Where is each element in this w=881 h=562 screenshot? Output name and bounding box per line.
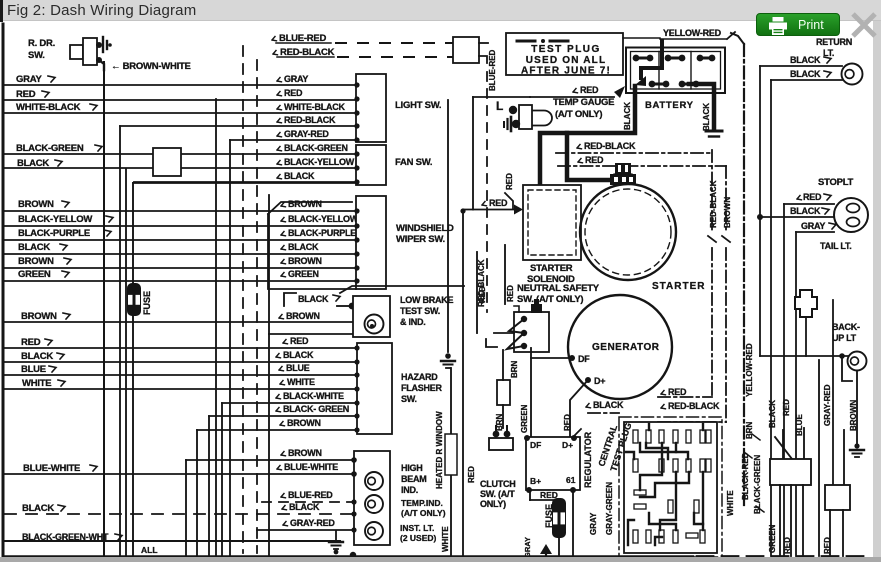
svg-text:GREEN: GREEN: [520, 404, 529, 433]
svg-text:LOW BRAKE: LOW BRAKE: [400, 295, 453, 305]
svg-text:RED-BLACK: RED-BLACK: [709, 180, 718, 228]
svg-text:(A/T ONLY): (A/T ONLY): [401, 508, 446, 518]
label BLACK: [586, 404, 591, 408]
wire bus BROWN-WHITE vertical: [103, 62, 105, 556]
central test plug block: [624, 422, 717, 553]
relay box: [153, 148, 181, 176]
svg-text:BLACK: BLACK: [283, 350, 314, 360]
svg-text:RED: RED: [16, 89, 36, 100]
svg-text:BROWN: BROWN: [723, 197, 732, 228]
svg-text:STARTER: STARTER: [530, 263, 573, 274]
hazard flasher box: [357, 343, 392, 434]
right gray strip: [873, 21, 881, 562]
return lamp: [842, 64, 863, 85]
pin: [706, 430, 711, 443]
connector box1: [770, 459, 811, 485]
wire bold to starter bolt: [567, 133, 612, 180]
wire D+ to regulator: [570, 380, 588, 437]
svg-text:BLUE-RED: BLUE-RED: [288, 490, 333, 500]
pin: [634, 490, 646, 495]
pin: [659, 530, 664, 543]
svg-text:GRAY-RED: GRAY-RED: [290, 518, 335, 528]
wire bus vertical x269: [268, 195, 270, 556]
pin: [706, 459, 711, 472]
svg-text:BLACK-PURPLE: BLACK-PURPLE: [18, 228, 90, 239]
svg-text:TEMP.IND.: TEMP.IND.: [401, 498, 443, 508]
label BLACK-PURPLE mid: [281, 232, 286, 236]
terminal DF: [569, 355, 575, 361]
wires resistor: [502, 350, 504, 380]
low brake test sw box: [353, 296, 390, 337]
pin: [694, 500, 699, 513]
diagram left border: [2, 24, 5, 557]
svg-text:BLACK: BLACK: [593, 400, 624, 410]
dash-dot bus BROWN x726: [725, 166, 727, 232]
svg-text:GRAY-GREEN: GRAY-GREEN: [605, 482, 614, 535]
bus x760: [759, 66, 761, 356]
wire BLACK-GREEN: [209, 415, 357, 417]
svg-text:BLACK-RED: BLACK-RED: [741, 452, 750, 500]
svg-text:RED: RED: [505, 173, 514, 190]
misc hooks: [752, 434, 760, 440]
svg-text:RED-BLACK: RED-BLACK: [584, 141, 636, 151]
svg-text:BLACK-GREEN: BLACK-GREEN: [284, 143, 348, 153]
svg-text:HEATED R WINDOW: HEATED R WINDOW: [435, 411, 444, 489]
wires into box1: [782, 430, 784, 459]
wire vertical x473: [472, 97, 474, 210]
svg-text:GRAY: GRAY: [589, 512, 598, 535]
svg-text:WHITE: WHITE: [726, 490, 735, 516]
wire yellow-red bold into battery: [641, 41, 662, 78]
svg-text:ONLY): ONLY): [480, 499, 506, 509]
svg-text:BACK-: BACK-: [832, 322, 860, 332]
svg-text:TEMP GAUGE: TEMP GAUGE: [553, 97, 614, 108]
pin: [646, 530, 651, 543]
battery terminal top: [633, 55, 640, 62]
svg-text:BROWN: BROWN: [286, 311, 320, 321]
svg-text:FUSE: FUSE: [142, 291, 152, 315]
pin: [634, 504, 646, 509]
wire bus vertical x230: [229, 140, 231, 556]
svg-text:BLACK-YELLOW: BLACK-YELLOW: [18, 214, 92, 225]
pin: [700, 530, 705, 543]
svg-text:SW.: SW.: [28, 50, 45, 61]
svg-text:RED-BLACK: RED-BLACK: [668, 401, 720, 411]
wire bus vertical x216: [215, 99, 217, 556]
svg-text:BLACK: BLACK: [702, 103, 711, 131]
pin: [659, 430, 664, 443]
pin: [700, 430, 705, 443]
svg-text:FLASHER: FLASHER: [401, 383, 443, 393]
svg-text:BLUE-WHITE: BLUE-WHITE: [284, 462, 338, 472]
svg-text:D+: D+: [562, 440, 573, 450]
pin: [633, 459, 638, 472]
battery terminal top: [697, 55, 704, 62]
wire to backup lamp: [760, 355, 848, 357]
wire BLUE-RED dashed: [262, 501, 354, 503]
label RED: [661, 391, 666, 395]
svg-text:SW.: SW.: [401, 394, 417, 404]
print button: [756, 13, 840, 36]
svg-text:BLACK-WHITE: BLACK-WHITE: [283, 391, 344, 401]
label GREEN mid: [281, 273, 286, 277]
dash-dot bus RED-BLACK x712: [711, 150, 713, 232]
svg-text:BLACK: BLACK: [18, 242, 50, 253]
svg-text:R. DR.: R. DR.: [28, 38, 55, 49]
svg-text:B+: B+: [530, 476, 541, 486]
svg-text:BEAM: BEAM: [401, 474, 427, 484]
svg-text:BLACK: BLACK: [298, 294, 329, 304]
svg-text:RED: RED: [668, 387, 687, 397]
svg-text:GREEN: GREEN: [288, 269, 319, 279]
svg-text:SW. (A/T: SW. (A/T: [480, 489, 515, 499]
windshield harness outline: [268, 202, 352, 214]
svg-text:BLUE-WHITE: BLUE-WHITE: [23, 463, 80, 474]
battery terminal bottom: [679, 81, 686, 88]
svg-text:NEUTRAL SAFETY: NEUTRAL SAFETY: [517, 283, 600, 294]
svg-text:BLACK: BLACK: [768, 400, 777, 428]
wire RED to battery: [573, 89, 578, 93]
label GRAY mid: [277, 78, 282, 82]
connector box top: [453, 37, 479, 63]
pin: [646, 430, 651, 443]
svg-text:BLACK-YELLOW: BLACK-YELLOW: [288, 214, 359, 224]
bus x784 RED: [783, 204, 785, 556]
neutral safety switch: [514, 312, 549, 352]
temp gauge bulb: [532, 111, 552, 126]
pin: [673, 459, 678, 472]
svg-text:BLACK: BLACK: [22, 503, 54, 514]
svg-text:WHITE: WHITE: [441, 526, 450, 552]
svg-text:GRAY: GRAY: [523, 537, 532, 558]
starter motor: [580, 184, 676, 280]
resistor: [497, 380, 510, 405]
svg-text:WHITE-BLACK: WHITE-BLACK: [16, 102, 81, 113]
header bar: [0, 0, 881, 21]
svg-text:HIGH: HIGH: [401, 463, 423, 473]
svg-text:TEST SW.: TEST SW.: [400, 306, 440, 316]
svg-text:BRN: BRN: [745, 421, 754, 439]
bus x771 BLACK: [770, 80, 772, 556]
svg-text:WHITE-BLACK: WHITE-BLACK: [284, 102, 345, 112]
label BLACK mid: [277, 175, 282, 179]
svg-text:BLACK-GREEN: BLACK-GREEN: [16, 143, 84, 154]
svg-text:BLUE-RED: BLUE-RED: [488, 49, 497, 91]
wire DF to regulator: [531, 357, 572, 359]
svg-text:BROWN: BROWN: [18, 199, 54, 210]
label GRAY-RED mid: [277, 133, 282, 137]
fan switch box: [356, 145, 386, 185]
svg-text:L: L: [496, 99, 503, 113]
high beam lamp: [365, 472, 383, 490]
label BROWN mid: [281, 260, 286, 264]
door switch: [70, 45, 83, 59]
wire BLACK to low brake: [284, 293, 296, 306]
svg-text:GRAY-RED: GRAY-RED: [823, 384, 832, 426]
svg-text:RED-: RED-: [478, 283, 487, 303]
bottom arrow: [540, 544, 552, 554]
svg-text:RED: RED: [783, 537, 792, 554]
pin: [633, 530, 638, 543]
svg-text:RED: RED: [563, 414, 572, 431]
svg-text:BLACK: BLACK: [623, 102, 632, 130]
svg-text:UP LT: UP LT: [832, 333, 857, 343]
svg-text:GRAY: GRAY: [16, 74, 42, 85]
svg-text:RED: RED: [823, 537, 832, 554]
svg-text:GREEN: GREEN: [18, 269, 51, 280]
svg-text:WHITE: WHITE: [22, 378, 51, 389]
ground hazard: [445, 353, 451, 359]
wire lower to low brake: [269, 333, 353, 335]
regulator: [526, 437, 580, 490]
temp ind lamp: [365, 495, 383, 513]
svg-text:BLUE: BLUE: [795, 414, 804, 436]
svg-text:& IND.: & IND.: [400, 317, 426, 327]
svg-text:BLUE: BLUE: [286, 363, 310, 373]
svg-text:AFTER JUNE 7!: AFTER JUNE 7!: [521, 66, 611, 77]
light switch box: [356, 74, 386, 142]
svg-text:BATTERY: BATTERY: [645, 100, 694, 111]
wire RED dash-dot: [578, 159, 583, 163]
pin: [686, 459, 691, 472]
bus x796 BLUE: [795, 232, 797, 556]
wire BLACK-WHITE: [222, 402, 357, 404]
svg-text:WIPER SW.: WIPER SW.: [396, 234, 445, 245]
svg-text:BROWN: BROWN: [849, 400, 858, 431]
svg-text:BRN: BRN: [510, 360, 519, 378]
svg-text:BLACK-PURPLE: BLACK-PURPLE: [288, 228, 356, 238]
pin: [668, 500, 673, 513]
svg-text:WHITE: WHITE: [287, 377, 315, 387]
label RED-BLACK mid: [277, 119, 282, 123]
svg-text:ALL: ALL: [141, 545, 158, 555]
battery terminal top: [665, 55, 672, 62]
label BLACK-YELLOW mid: [281, 218, 286, 222]
label RED mid: [277, 92, 282, 96]
wire bus vertical x257 dashed: [256, 60, 258, 553]
svg-text:61: 61: [566, 475, 576, 485]
wire bus vertical x115: [119, 126, 121, 556]
pin: [659, 459, 664, 472]
bottom scan bar: [4, 555, 693, 558]
svg-text:STOPLT: STOPLT: [818, 177, 854, 188]
svg-text:BLACK-GREEN: BLACK-GREEN: [753, 455, 762, 514]
svg-text:RED: RED: [467, 466, 476, 483]
clutch switch: [493, 431, 500, 438]
svg-text:REGULATOR: REGULATOR: [583, 431, 593, 488]
svg-text:BLACK- GREEN: BLACK- GREEN: [283, 404, 349, 414]
wire bus vertical x243 dashed: [242, 46, 244, 553]
svg-text:GENERATOR: GENERATOR: [592, 342, 660, 353]
fuse F2: [552, 498, 566, 538]
GRAY-RED bus: [818, 360, 820, 556]
windshield wiper switch box: [356, 196, 386, 289]
fuse F1: [127, 283, 141, 316]
test plug note box: [506, 33, 623, 75]
svg-text:IND.: IND.: [401, 485, 418, 495]
svg-text:YELLOW-RED: YELLOW-RED: [663, 28, 722, 38]
label BLACK-GREEN mid: [277, 147, 282, 151]
svg-text:GRAY-RED: GRAY-RED: [284, 129, 329, 139]
wire bus vertical x126: [125, 169, 127, 556]
svg-text:USED ON ALL: USED ON ALL: [526, 55, 607, 66]
svg-text:TEST PLUG: TEST PLUG: [531, 44, 601, 55]
wire diagonal to black bracket: [340, 286, 464, 293]
svg-text:BLUE: BLUE: [21, 364, 46, 375]
close X: [849, 10, 879, 40]
svg-text:LIGHT SW.: LIGHT SW.: [395, 100, 441, 111]
svg-text:GRAY: GRAY: [801, 221, 825, 231]
svg-text:BLACK: BLACK: [289, 502, 320, 512]
svg-text:HAZARD: HAZARD: [401, 372, 438, 382]
svg-text:RED: RED: [803, 192, 822, 202]
svg-text:(2 USED): (2 USED): [400, 533, 437, 543]
wire RED to solenoid: [482, 202, 487, 206]
generator: [568, 295, 672, 399]
wire GRAY-RED row: [230, 139, 356, 141]
battery: [626, 48, 725, 94]
svg-text:RED: RED: [290, 336, 309, 346]
svg-text:(A/T ONLY): (A/T ONLY): [555, 109, 602, 120]
pin: [686, 430, 691, 443]
svg-text:RED: RED: [21, 337, 41, 348]
wire BROWN high beam: [186, 459, 354, 461]
starter solenoid: [523, 185, 581, 260]
dash-dot bus YELLOW-RED: [731, 33, 744, 44]
label BLACK-YELLOW mid: [277, 161, 282, 165]
svg-text:WINDSHIELD: WINDSHIELD: [396, 223, 454, 234]
svg-text:RED: RED: [284, 88, 303, 98]
svg-text:BLACK: BLACK: [284, 171, 315, 181]
svg-text:RED: RED: [506, 285, 515, 302]
svg-text:RETURN: RETURN: [816, 37, 852, 47]
svg-text:BLACK: BLACK: [21, 351, 53, 362]
svg-text:DF: DF: [530, 440, 541, 450]
connector box2: [843, 430, 845, 485]
svg-text:SW. (A/T ONLY): SW. (A/T ONLY): [517, 294, 583, 305]
svg-text:GRAY: GRAY: [284, 74, 308, 84]
label BLACK mid: [281, 246, 286, 250]
pin: [686, 533, 698, 538]
svg-text:FAN SW.: FAN SW.: [395, 157, 432, 168]
low brake lamp: [365, 315, 384, 334]
label WHITE-BLACK mid: [277, 106, 282, 110]
wire vertical x448: [447, 100, 449, 352]
svg-text:BROWN: BROWN: [287, 418, 321, 428]
pin: [633, 430, 638, 443]
wire BROWN: [197, 429, 357, 431]
wire RED-BLACK row: [120, 125, 356, 127]
svg-text:BLACK: BLACK: [288, 242, 319, 252]
backup lamp: [848, 352, 867, 371]
wire horizontal y183: [133, 182, 356, 184]
wire GRAY-RED: [257, 529, 354, 531]
connector bars: [706, 130, 722, 133]
svg-text:YELLOW-RED: YELLOW-RED: [745, 343, 754, 397]
svg-text:BLACK: BLACK: [790, 69, 821, 79]
central test plug outline dash-dot: [619, 417, 722, 557]
svg-text:GREEN: GREEN: [768, 524, 777, 553]
backup connector fork: [795, 290, 817, 317]
svg-text:BLACK: BLACK: [790, 206, 821, 216]
wire brown-white elbow: [99, 60, 104, 70]
svg-text:RED: RED: [585, 155, 604, 165]
plug internal wires: [640, 443, 688, 459]
wire BLUE-RED dashed: [272, 37, 277, 41]
svg-text:BROWN: BROWN: [21, 311, 57, 322]
junction dots high beam box: [351, 457, 357, 463]
wire 61 down: [572, 490, 574, 556]
battery terminal bottom: [649, 81, 656, 88]
svg-text:BROWN: BROWN: [288, 199, 322, 209]
svg-text:D+: D+: [594, 376, 605, 386]
svg-text:TAIL LT.: TAIL LT.: [820, 241, 852, 251]
svg-text:INST. LT.: INST. LT.: [400, 523, 434, 533]
svg-text:RED: RED: [489, 198, 508, 208]
pin: [700, 459, 705, 472]
pin: [673, 430, 678, 443]
wire RED vertical: [462, 210, 464, 556]
svg-text:RED-BLACK: RED-BLACK: [284, 115, 336, 125]
terminal D+: [585, 377, 591, 383]
wire RED: [797, 196, 802, 200]
wire RED-BLACK dash-dot: [577, 145, 582, 149]
staircase verticals to bottom: [185, 460, 187, 556]
wire RED-BLACK dashed: [273, 51, 278, 55]
pin: [673, 530, 678, 543]
svg-text:CLUTCH: CLUTCH: [480, 479, 516, 489]
label BROWN mid: [281, 203, 286, 207]
inst lt lamp: [365, 522, 383, 540]
svg-text:RED: RED: [782, 399, 791, 416]
svg-text:← BROWN-WHITE: ← BROWN-WHITE: [111, 61, 191, 72]
svg-text:BLACK-YELLOW: BLACK-YELLOW: [284, 157, 355, 167]
svg-text:BROWN: BROWN: [18, 256, 54, 267]
svg-text:BLACK: BLACK: [790, 55, 821, 65]
wires into neutral safety: [494, 332, 514, 334]
bottom gray strip: [0, 557, 881, 562]
svg-text:FUSE: FUSE: [544, 504, 554, 528]
wire BLACK row2: [134, 181, 356, 183]
high beam box: [354, 451, 390, 545]
svg-text:STARTER: STARTER: [652, 281, 705, 292]
svg-text:DF: DF: [578, 354, 590, 364]
svg-text:BROWN: BROWN: [288, 256, 322, 266]
wire bus vertical x133 fuse line: [132, 183, 134, 286]
tail lamp: [834, 198, 868, 232]
connector heated window: [450, 368, 452, 434]
starter bolt: [610, 174, 636, 185]
label RED-BLACK: [661, 405, 666, 409]
svg-text:BROWN: BROWN: [288, 448, 322, 458]
ground inst: [335, 531, 337, 542]
wire backup ground: [842, 356, 852, 381]
svg-text:RED: RED: [580, 85, 599, 95]
